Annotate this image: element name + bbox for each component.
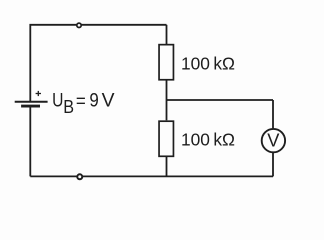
battery U_B (cell symbol) [15, 102, 48, 106]
wire between R1 and R2 [166, 81, 168, 121]
node terminal bottom [77, 174, 82, 179]
node terminal top [77, 23, 81, 27]
resistor R2 100k (box) [159, 121, 173, 156]
label UB = 9 V [52, 90, 115, 117]
resistor R1 100k (box) [159, 45, 173, 80]
wire voltmeter top lead [272, 100, 274, 128]
wire branch to voltmeter [167, 99, 274, 101]
wire voltmeter bottom lead [272, 153, 274, 176]
wire top (left rail to divider) [30, 25, 166, 101]
svg-text:100 kΩ: 100 kΩ [181, 130, 235, 150]
voltmeter V (circle) [262, 129, 285, 152]
svg-text:100 kΩ: 100 kΩ [181, 54, 235, 74]
battery plus sign [36, 91, 41, 96]
svg-text:=: = [76, 91, 86, 113]
svg-text:9: 9 [89, 90, 98, 112]
wire R2 to bottom [166, 157, 168, 176]
svg-text:V: V [102, 90, 116, 112]
wire bottom [30, 175, 273, 177]
wire left rail bottom [29, 108, 31, 177]
svg-text:U: U [52, 90, 63, 112]
svg-text:V: V [267, 130, 279, 150]
wire divider top into R1 [166, 25, 168, 44]
svg-text:B: B [63, 96, 74, 117]
